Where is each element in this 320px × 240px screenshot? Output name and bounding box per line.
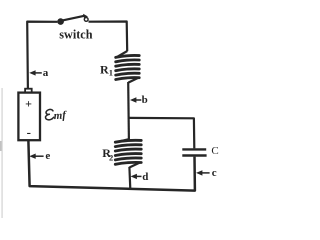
branch wire to capacitor — [129, 118, 195, 148]
wire R1 to R2 (mid vertical) — [127, 82, 130, 140]
page edge artifact — [1, 88, 3, 218]
resistor R1 coil — [116, 51, 140, 83]
node b arrow — [130, 97, 141, 102]
svg-text:2: 2 — [109, 153, 113, 163]
wire R2 to bottom — [128, 167, 131, 189]
wire top-left: battery top to top-left corner to switch — [27, 22, 57, 89]
svg-text:c: c — [212, 167, 217, 179]
node e arrow — [29, 154, 43, 159]
svg-text:mf: mf — [53, 109, 67, 122]
svg-text:b: b — [142, 94, 148, 106]
battery body — [18, 93, 40, 141]
svg-text:e: e — [45, 150, 50, 162]
svg-text:1: 1 — [109, 67, 113, 77]
svg-text:C: C — [211, 145, 218, 157]
capacitor C plates — [182, 149, 206, 155]
wire switch to top-right corner down to R1 — [89, 22, 128, 52]
switch contact circle — [84, 18, 88, 22]
svg-text:+: + — [25, 97, 32, 111]
switch pivot dot — [57, 18, 64, 25]
label Emf — [45, 109, 67, 123]
svg-text:R: R — [100, 62, 109, 76]
resistor R2 coil — [115, 139, 141, 167]
svg-text:-: - — [27, 125, 31, 140]
battery cap terminal — [25, 89, 32, 93]
node d arrow — [131, 174, 142, 179]
switch lever tip — [83, 14, 88, 18]
node a arrow — [29, 70, 42, 75]
bottom wire: battery bottom, bottom-left corner, bottom-right corner, up to capacitor — [28, 141, 195, 191]
svg-text:switch: switch — [59, 28, 92, 42]
svg-text:a: a — [43, 67, 49, 79]
svg-text:d: d — [142, 171, 148, 183]
node c arrow — [196, 170, 210, 175]
switch lever — [63, 16, 85, 21]
